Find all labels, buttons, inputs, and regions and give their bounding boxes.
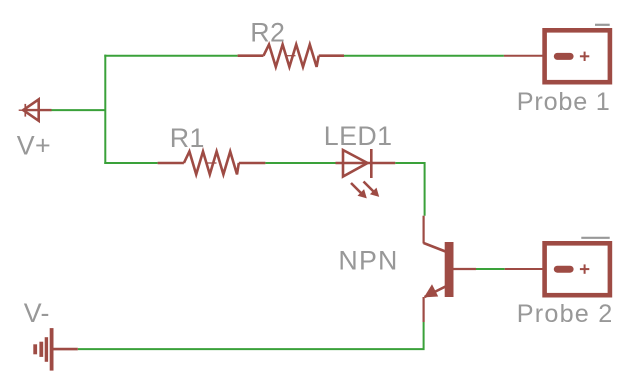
probe Probe 2 — [505, 238, 610, 295]
wire — [476, 268, 505, 270]
wire — [265, 162, 335, 164]
probe Probe 1 — [504, 25, 610, 82]
svg-text:LED1: LED1 — [324, 121, 393, 151]
wire — [395, 163, 424, 216]
svg-text:R2: R2 — [250, 18, 285, 48]
resistor R1 — [158, 152, 266, 175]
svg-text:Probe 1: Probe 1 — [517, 88, 611, 116]
wire — [78, 322, 424, 349]
svg-text:Probe 2: Probe 2 — [517, 300, 614, 328]
wire — [104, 55, 237, 57]
svg-text:V-: V- — [24, 298, 50, 328]
power flag V- — [33, 328, 78, 371]
wire — [104, 162, 157, 164]
power flag V+ — [19, 99, 52, 120]
LED LED1 — [336, 149, 396, 198]
resistor R2 — [238, 45, 344, 67]
svg-text:V+: V+ — [17, 131, 51, 161]
transistor NPN — [424, 216, 476, 322]
svg-text:NPN: NPN — [338, 246, 398, 276]
wire — [51, 109, 107, 111]
wire — [344, 55, 504, 57]
wire — [104, 55, 106, 164]
svg-text:R1: R1 — [170, 123, 205, 153]
